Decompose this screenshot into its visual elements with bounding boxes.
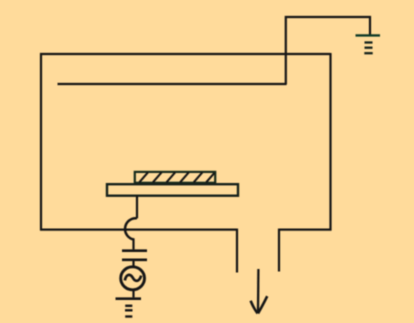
pump port left wall bbox=[236, 229, 238, 273]
wire from feedthrough to blocking capacitor bbox=[132, 240, 134, 250]
pump flow arrow head right barb bbox=[258, 296, 267, 313]
RF source circle bbox=[121, 267, 145, 290]
ground (top right) bar bbox=[356, 34, 381, 36]
chamber right wall bbox=[329, 53, 331, 231]
ground (top right) dash 2 bbox=[365, 47, 373, 49]
pump port right wall bbox=[278, 229, 280, 272]
substrate holder / bottom electrode plate bbox=[107, 184, 238, 196]
wire from top electrode to external ground bbox=[286, 17, 370, 85]
ground (bottom) bar bbox=[116, 297, 142, 300]
wire capacitor to RF source bbox=[132, 261, 134, 267]
ground (bottom) dash 1 bbox=[125, 305, 132, 307]
ground (bottom) dash 2 bbox=[125, 309, 133, 311]
pump flow arrow head left barb bbox=[251, 301, 258, 314]
wire RF source to ground bbox=[132, 290, 134, 298]
substrate hatch lines bbox=[139, 172, 214, 182]
RF source sine wave bbox=[125, 275, 141, 281]
ground (bottom) dash 3 bbox=[125, 315, 132, 317]
pump flow arrow shaft bbox=[257, 269, 260, 312]
substrate (hatched) outline bbox=[135, 172, 215, 183]
capacitor C bottom plate bbox=[122, 258, 147, 261]
wire from bottom electrode down to feedthrough bbox=[136, 196, 138, 219]
insulated feedthrough arc at chamber wall bbox=[125, 218, 137, 239]
chamber bottom wall left segment bbox=[40, 229, 237, 231]
ground (top right) dash 1 bbox=[365, 41, 373, 43]
chamber top wall bbox=[40, 53, 331, 55]
ground (top right) dash 3 bbox=[364, 52, 372, 54]
chamber bottom wall right segment bbox=[279, 229, 332, 231]
capacitor C top plate bbox=[122, 249, 147, 252]
chamber left wall bbox=[40, 53, 42, 231]
top electrode plate bbox=[58, 83, 287, 85]
